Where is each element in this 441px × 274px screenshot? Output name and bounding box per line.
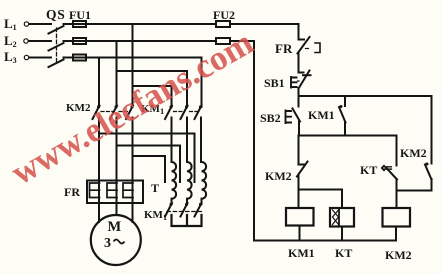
contact KM1 auxiliary (self hold)	[339, 96, 346, 136]
svg-text:FR: FR	[64, 185, 80, 199]
svg-text:SB2: SB2	[260, 111, 281, 125]
svg-text:KT: KT	[360, 163, 377, 177]
wire L1 phase line	[30, 23, 299, 25]
svg-text:KT: KT	[335, 246, 352, 260]
autotransformer T coil3	[202, 162, 207, 199]
svg-text:KM2: KM2	[400, 146, 427, 160]
fuse FU1	[73, 21, 86, 61]
svg-text:FU2: FU2	[213, 8, 235, 22]
wire tap3	[133, 156, 166, 182]
contactor KM2 main contacts	[93, 105, 134, 180]
terminal L1	[24, 22, 28, 26]
wire L2 phase line	[29, 40, 254, 42]
terminal L2	[24, 39, 28, 43]
switch QS	[49, 26, 64, 67]
fuse FU2	[216, 21, 230, 44]
wire L3 to KM1 pole3	[201, 58, 203, 108]
wire right rail	[431, 96, 433, 164]
contact KM2 auxiliary NC (left)	[297, 136, 308, 209]
thermal contact FR (NC)	[298, 37, 321, 72]
contact KT delayed (NO)	[386, 136, 397, 209]
contact KM2 auxiliary NO (right)	[397, 163, 432, 191]
svg-text:T: T	[151, 181, 159, 195]
svg-text:L1: L1	[4, 16, 17, 32]
svg-text:3: 3	[104, 236, 111, 251]
svg-text:KM2: KM2	[385, 248, 412, 262]
autotransformer T coil2	[187, 162, 192, 199]
svg-text:M: M	[108, 219, 122, 235]
autotransformer T coil1	[172, 162, 177, 199]
svg-text:⇐: ⇐	[381, 161, 394, 177]
node L3 drop	[98, 58, 100, 108]
wire KT coil branch	[299, 190, 343, 209]
wire control phase A feed	[298, 24, 300, 39]
wire tap2	[117, 146, 181, 183]
svg-text:SB1: SB1	[264, 76, 285, 90]
svg-text:L3: L3	[4, 49, 17, 65]
coil KM2	[383, 208, 411, 227]
svg-text:KM1: KM1	[288, 246, 315, 260]
svg-text:KM1: KM1	[308, 108, 335, 122]
coil KT	[330, 208, 354, 227]
svg-text:QS: QS	[46, 7, 66, 22]
wire L3 phase line	[30, 57, 202, 59]
wire FR to motor	[99, 181, 133, 223]
contactor KM1 star contacts	[165, 199, 204, 226]
pushbutton SB2 (NO start)	[286, 96, 301, 136]
svg-text:FU1: FU1	[69, 8, 91, 22]
thermal relay FR heater box	[87, 181, 143, 204]
wire bottom bus	[254, 240, 396, 242]
wire control left rail	[253, 41, 255, 241]
svg-text:KM1: KM1	[144, 209, 167, 222]
coil KM1	[286, 208, 314, 226]
contactor KM1 main contacts	[165, 105, 202, 162]
svg-text:FR: FR	[275, 41, 293, 56]
node L1 drop	[133, 24, 172, 107]
svg-text:L2: L2	[4, 33, 17, 49]
tilde motor	[114, 240, 125, 244]
wire rung1	[299, 95, 432, 97]
pushbutton SB1 (NC stop)	[291, 71, 311, 97]
wire rung2	[299, 135, 397, 137]
terminal L3	[24, 55, 28, 59]
wire tap1	[99, 134, 195, 183]
svg-text:KM2: KM2	[265, 169, 292, 183]
wire coil drops	[300, 226, 397, 241]
motor M	[91, 215, 141, 265]
node L2 drop	[117, 41, 188, 107]
